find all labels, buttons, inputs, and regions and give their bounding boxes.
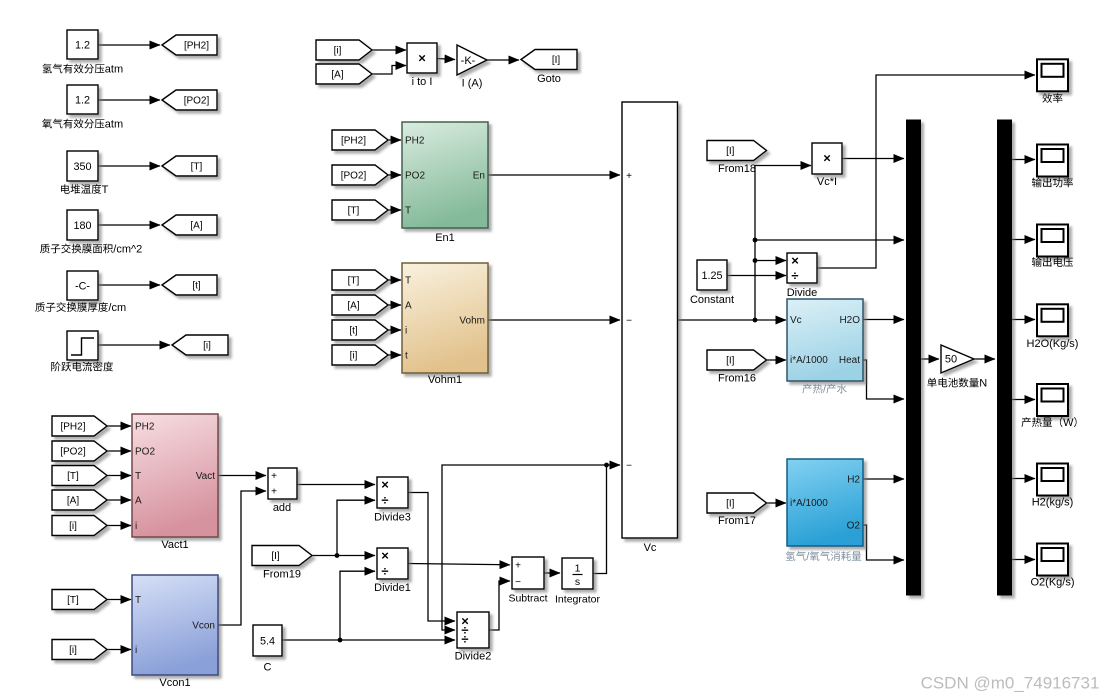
svg-text:Vc: Vc — [790, 315, 802, 326]
svg-text:−: − — [515, 577, 521, 588]
svg-text:PO2: PO2 — [405, 171, 425, 182]
svg-text:[I]: [I] — [726, 356, 735, 367]
svg-text:Divide1: Divide1 — [374, 582, 411, 594]
svg-text:5.4: 5.4 — [260, 636, 275, 648]
svg-text:180: 180 — [73, 220, 91, 232]
svg-text:i to I: i to I — [412, 76, 433, 88]
svg-text:Subtract: Subtract — [508, 593, 547, 605]
svg-text:[i]: [i] — [334, 46, 342, 57]
svg-text:1.25: 1.25 — [701, 270, 722, 282]
svg-text:i*A/1000: i*A/1000 — [790, 498, 828, 509]
svg-text:atm: atm — [105, 64, 123, 76]
svg-text:CSDN @m0_74916731: CSDN @m0_74916731 — [921, 674, 1100, 693]
svg-text:[PO2]: [PO2] — [184, 96, 210, 107]
svg-text:+: + — [271, 471, 277, 482]
svg-text:Vohm: Vohm — [459, 316, 485, 327]
svg-text:−: − — [626, 461, 632, 472]
svg-text:atm: atm — [105, 119, 123, 131]
svg-text:[t]: [t] — [349, 326, 358, 337]
svg-text:PH2: PH2 — [135, 422, 155, 433]
svg-text:[A]: [A] — [67, 496, 79, 507]
svg-text:From17: From17 — [718, 515, 756, 527]
svg-text:−: − — [626, 316, 632, 327]
svg-text:÷: ÷ — [791, 268, 798, 283]
svg-text:350: 350 — [73, 161, 91, 173]
svg-text:i: i — [135, 645, 137, 656]
svg-text:+: + — [515, 561, 521, 572]
svg-text:×: × — [381, 477, 389, 492]
svg-text:×: × — [791, 253, 799, 268]
svg-text:From16: From16 — [718, 373, 756, 385]
svg-text:÷: ÷ — [461, 632, 468, 647]
svg-text:[i]: [i] — [69, 521, 77, 532]
svg-text:Vc: Vc — [644, 542, 657, 554]
svg-text:[A]: [A] — [190, 221, 202, 232]
svg-text:T: T — [405, 276, 411, 287]
svg-text:Constant: Constant — [690, 294, 734, 306]
svg-text:[I]: [I] — [271, 551, 280, 562]
svg-text:t: t — [405, 351, 408, 362]
svg-text:Divide2: Divide2 — [455, 651, 492, 663]
svg-text:-K-: -K- — [461, 55, 476, 67]
svg-text:[A]: [A] — [331, 70, 343, 81]
svg-text:O2(Kg/s): O2(Kg/s) — [1030, 577, 1074, 589]
svg-text:Vact: Vact — [196, 471, 215, 482]
svg-text:A: A — [405, 301, 412, 312]
svg-text:×: × — [823, 151, 831, 166]
svg-text:O2: O2 — [847, 521, 861, 532]
svg-text:+: + — [271, 487, 277, 498]
svg-text:[PH2]: [PH2] — [341, 136, 366, 147]
svg-text:I (A): I (A) — [462, 78, 483, 90]
svg-text:Vact1: Vact1 — [161, 539, 188, 551]
svg-text:PO2: PO2 — [135, 447, 155, 458]
svg-text:×: × — [381, 548, 389, 563]
svg-text:W: W — [1063, 417, 1074, 429]
svg-text:[I]: [I] — [726, 146, 735, 157]
svg-text:1.2: 1.2 — [75, 95, 90, 107]
svg-text:/: / — [823, 384, 827, 396]
svg-text:Vohm1: Vohm1 — [428, 374, 462, 386]
svg-text:[PH2]: [PH2] — [184, 41, 209, 52]
svg-text:[T]: [T] — [348, 206, 360, 217]
svg-text:[PO2]: [PO2] — [60, 447, 86, 458]
svg-text:From19: From19 — [263, 569, 301, 581]
svg-text:C: C — [264, 662, 272, 674]
svg-text:[T]: [T] — [67, 471, 79, 482]
svg-text:/: / — [806, 551, 810, 563]
svg-text:H2(kg/s): H2(kg/s) — [1032, 497, 1074, 509]
svg-text:PH2: PH2 — [405, 136, 425, 147]
svg-text:[PO2]: [PO2] — [341, 171, 367, 182]
svg-text:[T]: [T] — [348, 276, 360, 287]
svg-text:From18: From18 — [718, 163, 756, 175]
svg-text:[I]: [I] — [726, 499, 735, 510]
svg-text:[T]: [T] — [67, 595, 79, 606]
svg-text:i*A/1000: i*A/1000 — [790, 355, 828, 366]
svg-text:T: T — [135, 595, 141, 606]
svg-text:[T]: [T] — [191, 162, 203, 173]
svg-text:N: N — [979, 378, 987, 390]
svg-text:Vcon: Vcon — [192, 621, 215, 632]
svg-text:add: add — [273, 502, 291, 514]
svg-text:[I]: [I] — [552, 55, 561, 66]
svg-text:/cm^2: /cm^2 — [113, 244, 142, 256]
svg-text:Integrator: Integrator — [555, 594, 600, 606]
svg-text:1.2: 1.2 — [75, 40, 90, 52]
svg-text:÷: ÷ — [381, 564, 388, 579]
svg-text:[t]: [t] — [192, 281, 201, 292]
svg-text:+: + — [626, 171, 632, 182]
svg-text:H2O: H2O — [839, 315, 860, 326]
svg-text:/cm: /cm — [108, 302, 126, 314]
svg-text:T: T — [405, 206, 411, 217]
svg-text:i: i — [405, 326, 407, 337]
svg-text:H2O(Kg/s): H2O(Kg/s) — [1027, 338, 1079, 350]
svg-text:[i]: [i] — [203, 341, 211, 352]
svg-text:[i]: [i] — [350, 351, 358, 362]
svg-text:En: En — [473, 171, 485, 182]
svg-text:1: 1 — [575, 563, 581, 575]
svg-text:T: T — [135, 471, 141, 482]
svg-text:Goto: Goto — [537, 73, 561, 85]
svg-text:Heat: Heat — [839, 355, 860, 366]
svg-text:Divide3: Divide3 — [374, 512, 411, 524]
svg-text:Vcon1: Vcon1 — [159, 677, 190, 689]
svg-text:×: × — [418, 51, 426, 66]
svg-text:[PH2]: [PH2] — [60, 422, 85, 433]
svg-text:-C-: -C- — [75, 281, 90, 293]
svg-text:÷: ÷ — [381, 493, 388, 508]
svg-text:[i]: [i] — [69, 645, 77, 656]
svg-text:s: s — [575, 576, 580, 588]
svg-text:T: T — [102, 184, 109, 196]
svg-text:i: i — [135, 521, 137, 532]
svg-text:En1: En1 — [435, 232, 455, 244]
svg-text:H2: H2 — [847, 475, 860, 486]
svg-text:50: 50 — [945, 354, 957, 366]
svg-text:Divide: Divide — [787, 287, 818, 299]
svg-text:A: A — [135, 496, 142, 507]
svg-text:[A]: [A] — [347, 301, 359, 312]
svg-text:Vc*I: Vc*I — [817, 176, 837, 188]
